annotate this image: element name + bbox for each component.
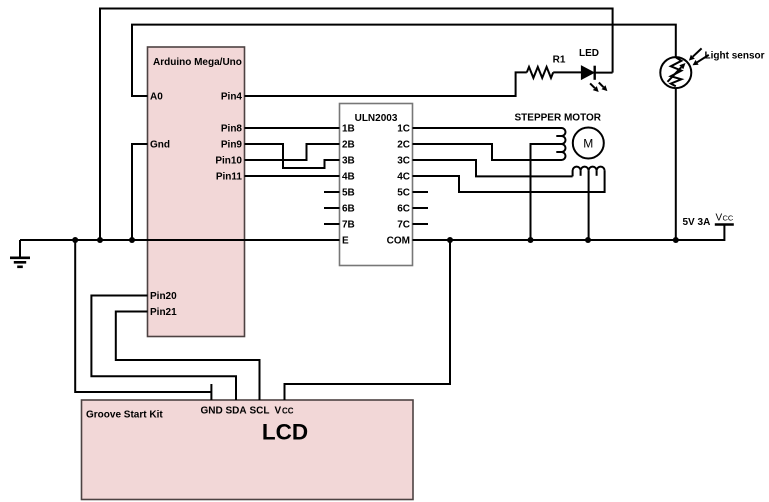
svg-text:6B: 6B: [342, 204, 355, 215]
junction dot (coil L2 tap): [585, 237, 591, 243]
pin stub 7B: [324, 223, 340, 225]
svg-text:7B: 7B: [342, 220, 355, 231]
svg-text:2C: 2C: [397, 140, 410, 151]
ULN2003 right pin labels 1C-7C,COM: [387, 124, 410, 247]
svg-text:Pin10: Pin10: [215, 156, 242, 167]
svg-text:5C: 5C: [397, 188, 410, 199]
wire: R1 to LED: [553, 71, 581, 73]
svg-text:STEPPER MOTOR: STEPPER MOTOR: [515, 113, 602, 124]
svg-text:1B: 1B: [342, 124, 355, 135]
svg-text:Pin11: Pin11: [216, 172, 243, 183]
svg-text:Gnd: Gnd: [150, 140, 170, 151]
svg-text:R1: R1: [553, 55, 566, 66]
pin stub 5C: [413, 191, 429, 193]
wire: LED return loop (top): [100, 9, 613, 241]
wire: light sensor bottom to bus: [675, 88, 677, 240]
svg-text:5B: 5B: [342, 188, 355, 199]
svg-text:4B: 4B: [342, 172, 355, 183]
svg-text:5V 3A: 5V 3A: [683, 217, 711, 228]
wire: Pin4 to R1: [245, 72, 527, 96]
svg-text:4C: 4C: [397, 172, 410, 183]
ground bus wire (left): [20, 239, 340, 241]
svg-text:CC: CC: [723, 214, 734, 223]
junction dot (light sensor): [673, 237, 679, 243]
light sensor LDR1: [660, 48, 764, 88]
svg-text:Pin9: Pin9: [221, 140, 243, 151]
wire: coil L1 center tap to bus: [531, 144, 562, 240]
bus wire right (COM to Vcc): [413, 225, 725, 241]
svg-text:LED: LED: [579, 48, 599, 59]
svg-text:Groove Start Kit: Groove Start Kit: [86, 410, 163, 421]
svg-text:Pin20: Pin20: [150, 291, 177, 302]
coil L2 (horizontal winding): [573, 167, 605, 177]
wire: bus to LCD Vcc: [285, 240, 451, 400]
svg-text:GND: GND: [201, 406, 223, 417]
svg-text:1C: 1C: [397, 124, 410, 135]
Arduino Mega/Uno box: [148, 47, 245, 337]
ground symbol: [10, 240, 30, 267]
wire: Pin11 to 4B: [245, 175, 340, 177]
wire: LED to return loop: [595, 72, 613, 74]
resistor R1: [527, 55, 566, 78]
Vcc supply symbol: [715, 213, 734, 225]
wire: 3C to coil L2 left: [413, 160, 573, 176]
wire: A0 to light sensor (outer loop): [132, 25, 676, 96]
svg-text:V: V: [716, 213, 723, 224]
svg-text:COM: COM: [387, 236, 410, 247]
pin stub 7C: [413, 223, 429, 225]
svg-text:V: V: [275, 406, 282, 417]
svg-text:7C: 7C: [397, 220, 410, 231]
svg-text:2B: 2B: [342, 140, 355, 151]
LCD Groove Start Kit box: [82, 400, 414, 500]
ULN2003 left pin labels 1B-7B,E: [342, 124, 355, 247]
LED D1: [579, 48, 607, 92]
wire: Gnd pin to bus: [132, 144, 148, 240]
svg-text:CC: CC: [282, 407, 294, 416]
svg-text:Arduino Mega/Uno: Arduino Mega/Uno: [153, 57, 242, 68]
pin stub 6B: [324, 207, 340, 209]
wire: Pin10 to 2B: [245, 144, 340, 160]
svg-text:Pin21: Pin21: [150, 307, 177, 318]
wire: coil L2 center tap to bus: [588, 171, 590, 240]
wire: bus to LCD GND: [75, 240, 211, 392]
wire: Pin21 to LCD SCL: [116, 312, 260, 401]
svg-text:ULN2003: ULN2003: [355, 113, 398, 124]
coil L1 (vertical winding): [556, 128, 565, 160]
svg-text:E: E: [342, 236, 349, 247]
svg-text:LCD: LCD: [262, 420, 308, 445]
svg-text:SDA: SDA: [226, 406, 247, 417]
junction dot (GND drop): [72, 237, 78, 243]
junction dot (LED loop): [97, 237, 103, 243]
wire: Pin9 to 3B: [245, 144, 340, 168]
wire: 4C to coil L2 right: [413, 171, 605, 192]
wire: 2C to coil L1 bottom: [413, 144, 562, 160]
wire: 1C to coil L1 top: [413, 127, 562, 129]
pin stub LCD GND: [210, 384, 212, 400]
svg-text:M: M: [583, 136, 593, 150]
svg-text:A0: A0: [150, 92, 163, 103]
svg-text:Pin8: Pin8: [221, 124, 243, 135]
pin stub 6C: [413, 207, 429, 209]
svg-text:SCL: SCL: [250, 406, 270, 417]
pin stub 5B: [324, 191, 340, 193]
svg-text:3C: 3C: [397, 156, 410, 167]
svg-text:Light sensor: Light sensor: [705, 51, 765, 62]
junction dot (coil L1 tap): [528, 237, 534, 243]
junction dot (Gnd pin): [129, 237, 135, 243]
svg-text:Pin4: Pin4: [221, 92, 243, 103]
ULN2003 U1 box: [340, 104, 413, 266]
svg-text:3B: 3B: [342, 156, 355, 167]
svg-text:6C: 6C: [397, 204, 410, 215]
motor M circle: [573, 128, 604, 159]
wire: Pin20 to LCD SDA: [91, 296, 236, 401]
junction dot (LCD Vcc drop): [447, 237, 453, 243]
wire: Pin8 to 1B: [245, 127, 340, 129]
